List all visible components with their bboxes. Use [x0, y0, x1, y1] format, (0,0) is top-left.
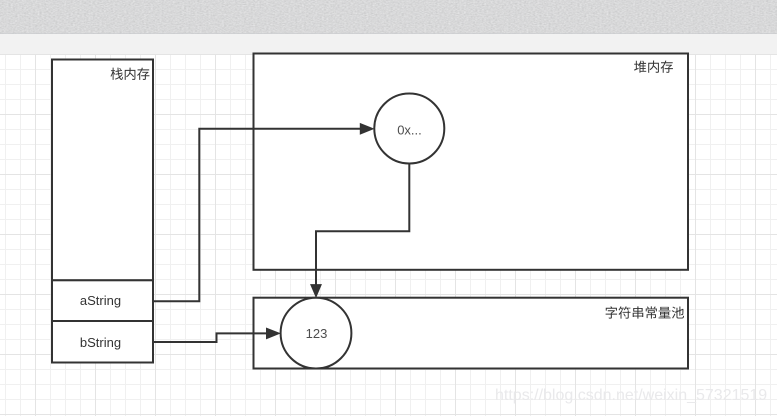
label 堆内存 (heap memory) — [634, 61, 673, 73]
arrowhead into 123 circle from bString — [267, 328, 280, 338]
circle node 0x... — [374, 94, 444, 164]
pool box 字符串常量池 — [254, 298, 689, 369]
svg-text:aString: aString — [80, 293, 121, 308]
stack box 栈内存 — [52, 60, 153, 281]
wire bString to 123 circle — [153, 333, 267, 342]
wire aString to 0x circle — [153, 129, 361, 301]
heap box 堆内存 — [254, 54, 689, 270]
svg-text:bString: bString — [80, 335, 121, 350]
arrowhead into 0x circle — [360, 124, 373, 134]
aString cell — [52, 280, 153, 321]
light toolbar strip — [0, 34, 777, 54]
svg-text:0x...: 0x... — [397, 122, 422, 137]
arrowhead into 123 circle — [311, 285, 321, 297]
textured gray header band — [0, 0, 777, 34]
wire 0x circle down to 123 circle — [316, 164, 409, 285]
csdn watermark — [495, 388, 767, 404]
circle node 123 — [281, 298, 352, 369]
bString cell — [52, 321, 153, 363]
label 栈内存 (stack memory) — [111, 68, 150, 80]
svg-text:123: 123 — [306, 326, 328, 341]
label 字符串常量池 (string constant pool) — [606, 306, 684, 318]
